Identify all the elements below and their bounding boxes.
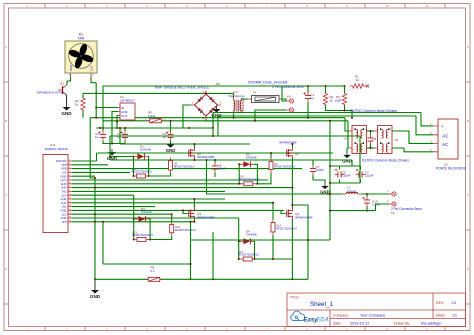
wire U11 pin5 GND (72, 175, 95, 177)
wire x190 drop (190, 222, 192, 279)
wire U19 top stub (366, 194, 368, 197)
svg-text:AC: AC (442, 133, 449, 138)
junction D1 left (133, 156, 135, 158)
svg-text:10kΩ: 10kΩ (148, 114, 156, 118)
wire R4 top (82, 93, 84, 98)
junction Q5 drain (291, 143, 293, 145)
resistor U15 (241, 182, 256, 186)
resistor R3 (342, 91, 346, 108)
wire rail112 to U2 pin1 (421, 113, 433, 126)
svg-text:RF25CT52A301/J: RF25CT52A301/J (132, 233, 153, 237)
svg-text:RF25CT52A301/J: RF25CT52A301/J (132, 170, 153, 174)
junction x213 rail128 (212, 127, 214, 129)
svg-text:10: 10 (385, 328, 389, 332)
junction U14 pin12 (272, 202, 274, 204)
wire C4 top (124, 128, 126, 131)
svg-text:F1: F1 (253, 91, 257, 95)
wire bus y86 to R rail (308, 85, 345, 87)
wire C1 bottom (307, 102, 309, 118)
resistor U16 (240, 257, 255, 261)
svg-text:RF25CT52A301/J: RF25CT52A301/J (174, 164, 195, 168)
junction gnd bus bottom rail (94, 278, 96, 280)
wire D4 loop left (239, 241, 241, 259)
wire fuse right to K4 (283, 99, 287, 101)
wire Q4 gate feed (281, 210, 283, 213)
EasyEDA logo (291, 311, 329, 323)
wire U11 pin2 TP8 (72, 164, 108, 166)
wire Q4 drain (291, 205, 293, 208)
wire x213 rail128 to 136 (212, 128, 214, 136)
svg-text:GND: GND (69, 65, 73, 71)
junction U15 right (256, 183, 258, 185)
wire rail y153 (97, 152, 334, 154)
wire U11 pin1 FANCTR (72, 160, 97, 162)
wire rail y279 left (95, 278, 149, 280)
wire U10 bottom to U13 (150, 236, 172, 240)
svg-text:IRF840APBF: IRF840APBF (197, 155, 215, 159)
wire K3 pin2 link (376, 204, 390, 211)
wire x360 drop (359, 136, 361, 166)
diode D2 (240, 152, 257, 167)
wire x352 drop (351, 160, 353, 166)
junction Q5 source p8 (291, 187, 293, 189)
svg-text:GND: GND (61, 209, 67, 213)
junction U9 left (133, 175, 135, 177)
resistor R6 (145, 266, 163, 282)
wire x360 caps (359, 166, 361, 183)
junction R3 bottom (344, 110, 346, 112)
junction U1 out mid (116, 121, 118, 123)
wire C7 top (360, 166, 362, 170)
ground bottom left (90, 287, 101, 299)
wire Q2 source (193, 159, 195, 161)
junction transformer rail (233, 117, 235, 119)
wire C2 top (170, 121, 172, 131)
wire U14 bottom to U16 (255, 235, 274, 259)
wire U10 top to pin15 (171, 214, 173, 221)
junction U16 left (238, 258, 240, 260)
junction U9 right (148, 175, 150, 177)
svg-text:125uF: 125uF (365, 174, 374, 178)
junction C1 rail (307, 117, 309, 119)
svg-text:lino.addiego: lino.addiego (421, 321, 441, 325)
junction p17 x190 (190, 221, 192, 223)
wire C2 bottom (170, 141, 172, 143)
ground under C3 C4 (107, 149, 118, 161)
junction C2 rail (170, 120, 172, 122)
wire U5 top to rail153 (270, 153, 272, 159)
wire U11 pin17 IPS (72, 221, 194, 223)
svg-text:FAN: FAN (78, 37, 85, 41)
ground stem bottom left (94, 279, 96, 289)
junction y210 x330 (329, 210, 331, 212)
svg-text:EDA: EDA (316, 318, 329, 324)
wire U11 pin3 VPB (72, 168, 302, 170)
junction gnd bus pin15 (94, 213, 96, 215)
junction x103 rail128 (102, 127, 104, 129)
junction x330 rail (329, 120, 331, 122)
capacitor C2 (163, 131, 174, 141)
junction U1 feed (95, 107, 97, 109)
svg-text:+5V: +5V (62, 171, 67, 175)
svg-text:K4: K4 (287, 95, 291, 99)
wire Q2 drain (193, 144, 195, 148)
wire BL feed from pin10 (133, 195, 135, 219)
junction L1 left (329, 193, 331, 195)
svg-text:GND: GND (61, 216, 67, 220)
choke U3 (344, 126, 370, 154)
wire D3 loop right (149, 219, 150, 240)
svg-text:RF25CT52A301/J: RF25CT52A301/J (239, 177, 260, 181)
svg-text:FILTRO Common Mode Chokes: FILTRO Common Mode Chokes (362, 159, 409, 163)
wire bus y86 left (103, 85, 282, 87)
wire Q3 source (193, 219, 195, 222)
wire fan pin2 to bus (91, 77, 96, 83)
wire rail y128 (96, 127, 213, 129)
resistor U5 (269, 159, 273, 173)
junction C1 top (307, 85, 309, 87)
svg-text:A: A (467, 45, 469, 49)
resistor R1 (350, 84, 367, 88)
wire rail y240 (191, 239, 331, 241)
wire C6b bottom (339, 180, 341, 184)
connector K4 2pin (286, 95, 294, 113)
svg-text:100nF: 100nF (316, 168, 325, 172)
choke U4 (375, 126, 399, 154)
wire rail y116 (218, 115, 416, 117)
wire C1 top (307, 86, 309, 92)
svg-text:11: 11 (425, 328, 428, 332)
junction dc feed rail160 (206, 159, 208, 161)
svg-text:Transformer: Transformer (228, 94, 245, 98)
wire x213 bottom seg (212, 232, 214, 279)
wire transformer right top to fuse (242, 98, 249, 99)
junction R2 top (325, 85, 327, 87)
fuse F1 (248, 91, 283, 103)
capacitor C1 (303, 92, 314, 102)
junction x190 y264 (190, 263, 192, 265)
junction C8 bottom (370, 147, 372, 149)
wire rail y144 (120, 143, 250, 145)
wire gnd U3 stub (346, 148, 348, 152)
wire D3 loop left (134, 219, 135, 240)
ground right of U7 (320, 183, 330, 194)
svg-text:B: B (467, 119, 469, 123)
title block (287, 293, 466, 327)
capacitor U7 100nF (310, 165, 324, 175)
wire rail117 into U3 pin1 (345, 118, 349, 131)
svg-text:D5: D5 (216, 82, 220, 86)
wire bridge pin4 (206, 119, 213, 128)
wire U4 pin4 to U2 pin3 (392, 131, 433, 143)
wire BR feed from pin16 (238, 218, 240, 241)
wire rail120 into U3 pin2 (348, 121, 349, 148)
junction gnd bus pin17 (94, 221, 96, 223)
svg-text:IRF840APBF: IRF840APBF (295, 216, 313, 220)
junction U16 u14join (272, 258, 274, 260)
svg-text:100R: 100R (335, 98, 342, 102)
svg-text:VPB: VPB (61, 167, 67, 171)
svg-text:Your Company: Your Company (360, 313, 385, 317)
svg-text:GND: GND (90, 294, 101, 299)
svg-text:1/1: 1/1 (452, 313, 457, 317)
svg-text:B: B (5, 119, 7, 123)
capacitor C6b 125uF (335, 169, 351, 178)
wire R4 top link (83, 92, 96, 94)
junction U13 left (133, 239, 135, 241)
wire x103 ips drop (102, 222, 104, 264)
junction C6 rail160 (214, 159, 216, 161)
junction Q3 source p17 (193, 221, 195, 223)
wire rail y116 left drop (217, 116, 219, 136)
svg-text:TITLE:: TITLE: (290, 296, 300, 300)
wire U11 pin12 1HO (72, 202, 273, 204)
wire rail y160 (110, 159, 352, 161)
svg-text:RF25CT52A301/J: RF25CT52A301/J (238, 253, 259, 257)
wire x110 seg (109, 136, 111, 160)
wire rail116 to U2 pin2 (416, 116, 433, 135)
junction D4 left (238, 240, 240, 242)
wire Q1 emitter to ground (66, 95, 68, 104)
svg-text:MPS8050-D-AT/PC: MPS8050-D-AT/PC (37, 91, 65, 95)
svg-text:GND: GND (342, 158, 352, 163)
svg-text:LM7805CT: LM7805CT (120, 99, 135, 103)
svg-text:IPS: IPS (62, 220, 67, 224)
wire K4 pin1 up to bus (282, 86, 308, 101)
wire bus86 drop x103 (102, 86, 104, 131)
svg-text:RF25CT52A301/J: RF25CT52A301/J (175, 228, 196, 232)
junction U19 top (366, 193, 368, 195)
wire U11 pin13 V5L (72, 206, 155, 208)
mosfet Q5 (283, 148, 292, 159)
junction Q3 drain p11 (193, 198, 195, 200)
svg-text:1LO: 1LO (61, 212, 66, 216)
wire C8 top stub (370, 131, 372, 135)
capacitor U19 2.2uF (362, 197, 379, 207)
capacitor U8b 100nF (212, 163, 226, 173)
junction fan bus (95, 92, 97, 94)
wire R3 bottom stub (344, 105, 346, 111)
wire R2 top stub (325, 86, 327, 93)
svg-text:Q1: Q1 (60, 82, 64, 86)
junction x96 rail117 (95, 117, 97, 119)
svg-text:+12V: +12V (60, 178, 67, 182)
wire gnd drop x90 (90, 118, 95, 178)
svg-text:U3: U3 (344, 137, 348, 141)
wire U7 to gnd (313, 180, 325, 183)
junction U13 right (149, 239, 151, 241)
wire x120 seg (119, 128, 121, 144)
wire rail y279 right (160, 278, 309, 280)
wire U11 pin9 V5L (72, 190, 225, 192)
resistor U14 (271, 220, 275, 236)
svg-text:1N4148: 1N4148 (246, 155, 257, 159)
junction gnd bus jog (94, 177, 96, 179)
svg-text:1N4148: 1N4148 (141, 210, 152, 214)
wire L1 left (207, 193, 344, 195)
wire to U1 IN (96, 107, 118, 109)
junction Q3 gate p14 (182, 209, 184, 211)
junction y279 x292 (291, 278, 293, 280)
svg-text:2019-10-12: 2019-10-12 (350, 321, 369, 325)
wire U11 pin10 2LO (72, 194, 134, 196)
wire C8 bottom stub (370, 145, 372, 149)
junction x120 rail128 (119, 127, 121, 129)
junction rail128 x100 (99, 127, 101, 129)
svg-text:C8: C8 (373, 137, 377, 141)
wire Q4 source (291, 219, 293, 259)
wire U19 bottom stub (366, 207, 368, 211)
svg-text:2HO: 2HO (61, 182, 67, 186)
wire R3 top stub (344, 86, 346, 93)
diode D4 (240, 229, 257, 244)
wire U5 bottom to U15 (257, 173, 271, 184)
junction gnd bus pin8 (94, 187, 96, 189)
mosfet Q2 (185, 148, 194, 159)
wire D2 loop right (254, 164, 257, 184)
svg-text:EQ8010-JR2110: EQ8010-JR2110 (45, 147, 68, 151)
wire U11 pin16 GND (72, 217, 239, 219)
wire D1 loop left (133, 157, 136, 177)
wire y205 link right (292, 205, 308, 279)
bridge rectifier D5 (191, 90, 222, 121)
junction Q2 drain (193, 143, 195, 145)
junction U1 out rail (116, 127, 118, 129)
wire Q3 gate feed (183, 210, 185, 213)
svg-text:V5L: V5L (62, 205, 67, 209)
wire U11 pin8 2HO (72, 187, 292, 189)
junction K4 rail (254, 120, 256, 122)
ground at bridge (211, 106, 222, 118)
svg-text:K3: K3 (391, 211, 395, 215)
mosfet Q3 (185, 208, 194, 219)
wire rail y117.7 (90, 117, 345, 119)
wire rail y264 (103, 263, 191, 265)
capacitor C8 (368, 135, 377, 145)
wire U1 GND pin (112, 112, 118, 144)
diode D3 (135, 207, 152, 222)
svg-text:Date:: Date: (333, 321, 341, 325)
wire U11 pin6 +12V (72, 179, 268, 181)
svg-text:Sheet:: Sheet: (436, 313, 446, 317)
svg-text:Company:: Company: (333, 313, 349, 317)
junction caps x330 bottom (329, 182, 331, 184)
svg-text:2HO: 2HO (61, 186, 67, 190)
ground under Q1 (61, 104, 72, 116)
junction D2 left (238, 163, 240, 165)
svg-text:A: A (5, 45, 7, 49)
wire cap rail bottom (330, 182, 360, 184)
junction U15 left (238, 183, 240, 185)
junction rail128 x189 (188, 127, 190, 129)
wire cap rail top (330, 165, 360, 167)
resistor U6 (169, 158, 173, 174)
transformer U17 (228, 90, 245, 113)
svg-text:U4: U4 (395, 138, 399, 142)
svg-text:PONTE DE DIODOS: PONTE DE DIODOS (436, 167, 466, 171)
wire C3C4 bottom join (103, 141, 125, 144)
junction Q5 source y205 (291, 204, 293, 206)
svg-text:Q5: Q5 (295, 151, 299, 155)
resistor R2 (323, 91, 327, 108)
wire U6 bottom to U9 (149, 173, 171, 176)
svg-text:REV:: REV: (436, 301, 444, 305)
wire U11 pin4 +5V (72, 171, 130, 173)
regulator U1 LM7805CT (118, 95, 135, 120)
wire rail y136 (110, 135, 360, 137)
wire pin1 up to rail153 (96, 153, 98, 161)
wire x292 bottom seg (291, 259, 293, 279)
wire D2 loop left (239, 164, 241, 184)
junction U5 rail153 (270, 152, 272, 154)
svg-text:5X20MM_FUSE_HOLDER: 5X20MM_FUSE_HOLDER (248, 81, 288, 85)
junction R3 top (344, 85, 346, 87)
svg-text:GND: GND (61, 111, 72, 116)
junction gnd2 stub (111, 143, 113, 145)
wire U3 pin3 to U4 pin2 (367, 147, 375, 149)
junction TL feed (109, 156, 111, 158)
wire bridge pin2 down (183, 105, 191, 128)
wire Q3 drain (193, 199, 195, 208)
connector U11 EQ8010-JR2110 (43, 143, 72, 233)
svg-text:GND: GND (166, 148, 176, 153)
wire C7 bottom (360, 180, 362, 184)
wire Q5 drain (291, 144, 293, 148)
wire U1 OUT pin (117, 116, 118, 129)
diode bridge module U2 (430, 119, 458, 159)
svg-text:1HO: 1HO (61, 201, 67, 205)
junction rail117 x352 (351, 117, 353, 119)
wire K4 pin2 left (255, 110, 286, 121)
no-connect flag R1 (366, 85, 369, 88)
svg-text:0.1: 0.1 (151, 269, 156, 273)
ground under U3 (342, 152, 352, 163)
resistor R4 (81, 95, 85, 113)
wire U7 top (312, 160, 314, 165)
wire C6 bottom (214, 173, 216, 178)
junction U16 right (254, 258, 256, 260)
junction U10 pin15 (171, 213, 173, 215)
svg-text:125uF: 125uF (342, 174, 351, 178)
junction caps x330 top (329, 165, 331, 167)
resistor U10 (170, 222, 174, 236)
capacitor C4 (117, 131, 128, 141)
junction y240 x308 (307, 239, 309, 241)
wire fan pin1 to Q1 collector (67, 77, 71, 85)
capacitor C7 125uF (356, 169, 374, 178)
wire L1 to K3 (361, 193, 389, 195)
junction y279 x213 (212, 278, 214, 280)
junction U19 bottom (366, 210, 368, 212)
svg-text:1N4148: 1N4148 (246, 232, 257, 236)
wire rail y210.6 (330, 210, 376, 212)
svg-text:100nF: 100nF (218, 167, 227, 171)
svg-text:1u: 1u (311, 96, 315, 100)
wire U11 pin11 GND (72, 198, 225, 200)
wire R4 bottom to rail (82, 111, 84, 118)
wire rail y112 left drop (212, 113, 214, 129)
junction bridge top bus (205, 92, 207, 94)
junction D3 left (133, 218, 135, 220)
wire U11 pin7 2HO (72, 183, 239, 185)
junction x190 y279 (190, 278, 192, 280)
wire Q5 source down (291, 159, 293, 206)
svg-text:OUT: OUT (121, 114, 128, 118)
svg-text:RF25CT52A301/J: RF25CT52A301/J (276, 226, 297, 230)
svg-text:GND: GND (61, 197, 67, 201)
wire U4 pin3 to U2 pin4 (392, 148, 433, 152)
wire U7 bottom (312, 175, 314, 180)
